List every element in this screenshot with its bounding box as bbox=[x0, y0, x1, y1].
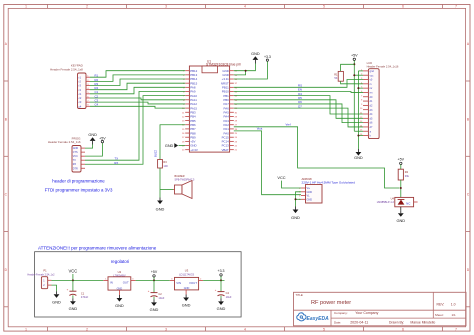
ground flag above PROG (pin GND) bbox=[85, 133, 97, 148]
svg-text:+5V: +5V bbox=[351, 53, 358, 57]
svg-text:Vi+: Vi+ bbox=[307, 187, 311, 190]
ground flag below U2 bbox=[115, 295, 124, 308]
svg-text:+3.3V: +3.3V bbox=[190, 148, 198, 152]
wire keypad r1 to PB12 bbox=[90, 71, 185, 78]
svg-text:B: B bbox=[5, 118, 7, 122]
wire mcu PB1 to lcd d4 net D4 bbox=[234, 96, 363, 114]
svg-text:Vout: Vout bbox=[257, 127, 263, 131]
svg-text:LCD: LCD bbox=[367, 61, 373, 65]
connector KEYPAD Header Female 2.54_1x8 bbox=[50, 64, 90, 109]
capacitor C1 470uF bbox=[67, 280, 89, 299]
wire mcu PA7 to lcd d6 net D6 bbox=[234, 104, 363, 123]
power flag +5V above LCD bbox=[351, 53, 358, 64]
svg-text:LD1117AV33: LD1117AV33 bbox=[179, 273, 194, 277]
power flag +5V above R2 bbox=[398, 158, 405, 170]
ground flag below LCD bbox=[354, 149, 363, 160]
svg-text:1: 1 bbox=[25, 328, 27, 332]
net labels R1-R4 C1-C4 bbox=[95, 74, 99, 107]
svg-text:RX: RX bbox=[73, 163, 77, 166]
wire R2 to LM385 node bbox=[400, 180, 402, 197]
wire mcu PA1 net Vref to LM385 node bbox=[234, 122, 400, 188]
svg-text:3: 3 bbox=[165, 4, 167, 8]
ground wires AD8318 pins 2 and 4 bbox=[295, 192, 302, 207]
wire mcu PB6 buzzer net BUZZ bbox=[154, 125, 186, 160]
svg-text:Company:: Company: bbox=[334, 311, 348, 315]
wire P1 pin2 to ground bbox=[52, 285, 57, 291]
buzzer BUZZER SPB-TW05P6A7.5 bbox=[173, 175, 195, 199]
connector P1 Header Female 2.54_1x2 bbox=[27, 269, 55, 289]
wire keypad c4 to PA15 bbox=[90, 106, 185, 108]
svg-text:P1: P1 bbox=[43, 269, 47, 273]
svg-text:+5V: +5V bbox=[99, 136, 106, 140]
svg-text:C4: C4 bbox=[226, 291, 230, 295]
svg-text:Header Female 2.54_1x6: Header Female 2.54_1x6 bbox=[48, 140, 81, 144]
wire mcu pin39 GND join bbox=[234, 70, 247, 75]
wire mcu PA0 net Vout to AD8318 bbox=[234, 127, 301, 195]
svg-text:GND: GND bbox=[354, 155, 363, 160]
ground flag below C2 bbox=[150, 299, 159, 312]
svg-text:REV:: REV: bbox=[437, 302, 445, 306]
svg-text:5K: 5K bbox=[334, 77, 337, 80]
wire mcu PA6 to lcd d7 net D7 bbox=[234, 108, 363, 127]
svg-text:Sheet:: Sheet: bbox=[435, 313, 444, 317]
svg-text:Header-Female 2.54_1x2: Header-Female 2.54_1x2 bbox=[27, 273, 55, 276]
svg-text:R3: R3 bbox=[163, 160, 167, 164]
wire mcu PB10 to lcd en net EN bbox=[234, 90, 363, 93]
svg-text:DTR: DTR bbox=[73, 167, 78, 170]
svg-text:BUZZ: BUZZ bbox=[154, 150, 158, 157]
lcd +5V rail bbox=[353, 63, 355, 131]
wire input rail P1 to U2 bbox=[52, 279, 104, 281]
svg-text:RF power meter: RF power meter bbox=[311, 300, 351, 306]
svg-text:GND: GND bbox=[156, 206, 165, 211]
connector LCD Header Female 2.54_1x16 bbox=[360, 61, 399, 139]
svg-text:GND: GND bbox=[88, 133, 97, 137]
svg-text:+5V: +5V bbox=[151, 270, 158, 274]
svg-text:VOUT: VOUT bbox=[189, 281, 197, 285]
svg-text:RX: RX bbox=[114, 161, 118, 165]
svg-text:7: 7 bbox=[455, 328, 457, 332]
wire RX from PROG to mcu PA10 bbox=[85, 96, 185, 165]
wire lcd vcc pin to +5V rail bbox=[353, 74, 363, 76]
svg-text:TX: TX bbox=[73, 159, 76, 162]
svg-text:VCC: VCC bbox=[73, 155, 78, 158]
mcu U1 STM32F103C8 blue pill bbox=[182, 60, 241, 153]
wire TX from PROG to mcu PA9 bbox=[85, 91, 185, 160]
title block bbox=[294, 292, 467, 326]
power flag VCC on input rail bbox=[68, 269, 77, 282]
wire keypad r2 to PB13 bbox=[90, 75, 185, 82]
svg-text:C1: C1 bbox=[81, 291, 85, 295]
svg-text:GND: GND bbox=[52, 299, 61, 304]
svg-text:Header Female 2.54_1x8: Header Female 2.54_1x8 bbox=[50, 67, 83, 71]
connector PROG Header Female 2.54_1x6 bbox=[48, 137, 85, 172]
svg-text:VCC: VCC bbox=[68, 269, 77, 274]
svg-text:470uF: 470uF bbox=[81, 295, 89, 299]
svg-text:R2: R2 bbox=[405, 170, 409, 174]
capacitor C2 10uF bbox=[148, 280, 165, 300]
svg-text:GND: GND bbox=[117, 287, 123, 290]
svg-text:GND: GND bbox=[150, 307, 159, 312]
svg-text:Your Company: Your Company bbox=[355, 311, 378, 315]
svg-text:CTS: CTS bbox=[73, 151, 78, 154]
svg-text:B: B bbox=[467, 118, 469, 122]
svg-text:GND: GND bbox=[307, 198, 313, 201]
svg-text:ATTENZIONE!!! per programmare: ATTENZIONE!!! per programmare rimuovere … bbox=[38, 245, 157, 250]
power flag +3.3 on output rail bbox=[218, 269, 225, 281]
svg-text:+3.3: +3.3 bbox=[218, 269, 225, 273]
svg-text:C2: C2 bbox=[158, 292, 162, 296]
svg-text:U2: U2 bbox=[118, 270, 122, 274]
wire keypad c2 to PA11 bbox=[90, 98, 185, 100]
svg-text:4: 4 bbox=[244, 4, 246, 8]
svg-text:rw: rw bbox=[370, 87, 373, 90]
ground flag below AD8318 bbox=[291, 207, 300, 221]
wire rail U2 to U3 bbox=[136, 279, 170, 281]
svg-text:4: 4 bbox=[244, 328, 246, 332]
svg-text:GND: GND bbox=[69, 306, 78, 311]
svg-text:100: 100 bbox=[163, 164, 168, 168]
svg-text:Manue Minutello: Manue Minutello bbox=[410, 321, 435, 325]
svg-text:1: 1 bbox=[25, 4, 27, 8]
power flag VCC at AD8318 bbox=[277, 175, 301, 188]
ground flag below P1 bbox=[52, 291, 61, 304]
svg-text:Header Female 2.54_1x16: Header Female 2.54_1x16 bbox=[367, 64, 399, 68]
svg-text:VIN: VIN bbox=[176, 281, 181, 285]
wire lcd a pin to +5V rail bbox=[354, 130, 363, 132]
lcd GND rail bbox=[357, 71, 359, 149]
power flag +5V on rail bbox=[151, 270, 158, 281]
resistor R2 bbox=[398, 169, 409, 180]
annotation FTDI programmer note bbox=[45, 179, 113, 193]
svg-text:FTDI programmer impostato a 3V: FTDI programmer impostato a 3V3 bbox=[45, 188, 113, 193]
svg-text:GND: GND bbox=[251, 52, 260, 56]
svg-text:1/1: 1/1 bbox=[452, 313, 457, 317]
wire keypad c1 to PA8 bbox=[90, 87, 185, 94]
svg-text:Date:: Date: bbox=[334, 320, 341, 324]
svg-text:GND: GND bbox=[307, 191, 313, 194]
svg-text:GND: GND bbox=[115, 303, 124, 308]
svg-text:5: 5 bbox=[323, 4, 325, 8]
svg-text:D7: D7 bbox=[298, 104, 302, 108]
svg-text:NC: NC bbox=[406, 201, 410, 205]
power flag +5V above PROG (pin VCC) bbox=[85, 136, 106, 156]
svg-text:OUT: OUT bbox=[123, 281, 129, 285]
svg-text:U4: U4 bbox=[391, 196, 395, 200]
wire keypad r3 to PB14 bbox=[90, 79, 185, 86]
svg-text:2: 2 bbox=[86, 328, 88, 332]
diode U4 LM385BLP-1.2 voltage reference bbox=[377, 196, 418, 206]
wire keypad c3 to PA12 bbox=[90, 102, 185, 104]
svg-text:header di programmazione: header di programmazione bbox=[52, 179, 105, 184]
regulators group box bbox=[35, 252, 242, 317]
resistor R1 contrast bbox=[334, 64, 363, 84]
svg-text:10uF: 10uF bbox=[158, 296, 164, 300]
regulator U3 LD1117AV33 bbox=[170, 268, 203, 294]
svg-text:10uF: 10uF bbox=[226, 295, 232, 299]
svg-text:GND: GND bbox=[182, 303, 191, 308]
ground flag below LM385 bbox=[396, 207, 405, 223]
svg-text:5: 5 bbox=[323, 328, 325, 332]
svg-text:36k: 36k bbox=[405, 174, 410, 178]
wire lcd k pin to gnd rail bbox=[357, 135, 363, 137]
wire mcu PB11 to lcd v0 net RS bbox=[234, 80, 363, 88]
svg-text:IN: IN bbox=[110, 281, 113, 285]
svg-text:7: 7 bbox=[455, 4, 457, 8]
svg-text:U3: U3 bbox=[185, 268, 189, 272]
module U5 AD8318 log detector bbox=[299, 177, 355, 203]
svg-text:+3.3: +3.3 bbox=[264, 55, 271, 59]
svg-text:gnd: gnd bbox=[370, 70, 375, 73]
svg-text:Drawn By:: Drawn By: bbox=[389, 321, 404, 325]
svg-text:regolatori: regolatori bbox=[111, 259, 129, 264]
wire keypad r4 to PB15 bbox=[90, 83, 185, 90]
svg-text:GND: GND bbox=[184, 287, 190, 290]
svg-text:+5V: +5V bbox=[398, 158, 405, 162]
wire rail U3 to +3.3 bbox=[203, 279, 224, 281]
resistor R3 bbox=[158, 160, 169, 169]
svg-text:2: 2 bbox=[86, 4, 88, 8]
svg-text:1.0: 1.0 bbox=[451, 302, 456, 306]
svg-text:6: 6 bbox=[402, 4, 404, 8]
svg-text:GND: GND bbox=[217, 306, 226, 311]
wire R3 to buzzer and ground bbox=[160, 168, 173, 198]
ground flag above mcu (pins 40,39) bbox=[234, 52, 260, 71]
ground flag below C4 bbox=[217, 298, 226, 311]
wire lcd rw pin to gnd rail bbox=[357, 87, 363, 89]
EasyEDA logo bbox=[297, 313, 329, 322]
svg-text:Vref: Vref bbox=[285, 122, 290, 126]
power flag +3.3 above mcu (pin 38) bbox=[234, 55, 271, 79]
capacitor C4 10uF bbox=[215, 280, 232, 299]
svg-text:VCC: VCC bbox=[277, 175, 285, 180]
svg-text:GND: GND bbox=[165, 144, 174, 148]
wire lcd gnd pin to gnd rail bbox=[358, 70, 363, 72]
svg-text:GND: GND bbox=[291, 215, 300, 220]
regulator U2 L7805ABV bbox=[103, 270, 135, 295]
svg-text:GND: GND bbox=[73, 147, 79, 150]
svg-text:TITLE:: TITLE: bbox=[296, 293, 304, 297]
svg-text:GND: GND bbox=[396, 218, 405, 223]
ground flag below U3 bbox=[182, 295, 191, 308]
ground flag at mcu pin 19 bbox=[165, 143, 185, 148]
svg-text:VBAT: VBAT bbox=[221, 148, 229, 152]
ground flag below R3 bbox=[156, 198, 165, 212]
wire mcu PB0 to lcd d5 net D5 bbox=[234, 100, 363, 119]
ground flag below C1 bbox=[69, 298, 78, 311]
svg-text:2020-04-11: 2020-04-11 bbox=[350, 320, 368, 324]
svg-text:LM385BLP-1.2: LM385BLP-1.2 bbox=[377, 200, 395, 204]
svg-text:3: 3 bbox=[165, 328, 167, 332]
svg-text:EasyEDA: EasyEDA bbox=[307, 316, 330, 322]
svg-text:6: 6 bbox=[402, 328, 404, 332]
